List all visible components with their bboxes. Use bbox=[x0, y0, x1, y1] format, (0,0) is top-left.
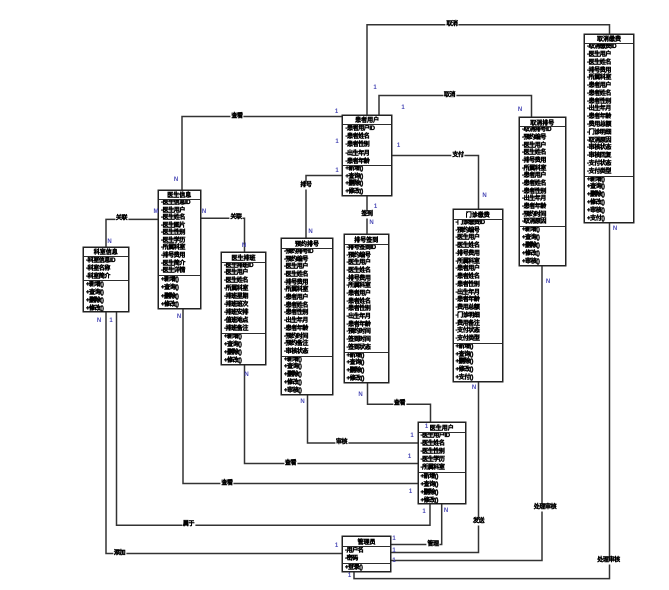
cardinality 1 患者用户-签到 bbox=[374, 204, 377, 210]
entity 取消缴费 bbox=[584, 34, 634, 223]
wire 处理审核: 取消缴费 bottom to 管理员 bottom bbox=[354, 223, 610, 579]
wire 审核: 预约排号 bottom to 医生用户 left bbox=[308, 395, 418, 443]
cardinality N 排号签到 bottom bbox=[358, 392, 362, 398]
cardinality N 医生信息 bottom bbox=[177, 314, 181, 320]
wire 查看: 医生信息 top to 患者用户 left bbox=[182, 117, 342, 190]
label 发送 on wire 门诊缴费-管理员 bbox=[472, 518, 485, 525]
cardinality N 门诊缴费 bottom bbox=[472, 385, 476, 391]
cardinality 1 患者用户-取消排号 bbox=[401, 105, 404, 111]
cardinality N 预约排号 bottom bbox=[300, 399, 304, 405]
label 取消 on wire 患者用户-取消排号 bbox=[443, 92, 456, 99]
cardinality 1 医生用户 bottom left bbox=[422, 509, 425, 515]
cardinality 1 患者用户 left upper bbox=[335, 109, 338, 115]
wire 管理: 管理员 right to 医生用户 bottom bbox=[391, 504, 442, 544]
label 查看 on wire 医生排班-医生用户 bbox=[284, 460, 297, 467]
label 审核 on wire 预约排号-医生用户 bbox=[335, 440, 348, 447]
label 处理审核 on wire 取消缴费-管理员 bbox=[596, 557, 620, 564]
label 取消 on wire 患者用户-取消缴费 bbox=[445, 21, 458, 28]
cardinality 1 管理员 bottom bbox=[348, 573, 351, 579]
wire 取消: 患者用户 top to 取消排号 top bbox=[379, 96, 532, 117]
wire 关联: 医生信息 right to 医生排班 top bbox=[201, 218, 245, 252]
entity 医生用户 bbox=[418, 422, 467, 504]
entity 科室信息 bbox=[83, 247, 129, 313]
entity 患者用户 bbox=[342, 115, 392, 197]
cardinality N 医生信息 right bbox=[202, 209, 206, 215]
label 处理审核 on wire 取消排号-管理员 bbox=[533, 505, 557, 512]
cardinality N 取消排号 bottom bbox=[546, 279, 550, 285]
cardinality 1 管理员-处理审核 bbox=[392, 558, 395, 564]
cardinality M 医生信息 left bbox=[154, 209, 159, 215]
cardinality 1 医生用户 top bbox=[425, 424, 428, 430]
label 添加 on wire 管理员-科室信息 bbox=[113, 550, 126, 557]
wire 签到: 患者用户 bottom to 排号签到 top bbox=[366, 196, 368, 234]
entity 管理员 bbox=[342, 536, 391, 572]
label 关联 on wire 医生信息-医生排班 bbox=[229, 215, 242, 222]
cardinality 1 患者用户-支付 bbox=[397, 143, 400, 149]
wire 查看: 医生信息 bottom to 医生用户 left bbox=[183, 309, 418, 484]
wire 支付: 患者用户 right to 门诊缴费 top bbox=[392, 156, 479, 210]
cardinality N 预约排号 top bbox=[308, 229, 312, 235]
wire 排号: 患者用户 left to 预约排号 top bbox=[306, 176, 342, 239]
label 查看 on wire 医生信息-患者用户 bbox=[230, 113, 243, 120]
wire 属于: 医生用户 bottom to 科室信息 bottom bbox=[117, 312, 431, 525]
wire 关联: 医生信息 left to 科室信息 top bbox=[106, 219, 158, 246]
wire 查看: 排号签到 bottom to 医生用户 top bbox=[368, 383, 431, 422]
cardinality N 医生排班 bottom bbox=[244, 372, 248, 378]
cardinality 1 医生用户 left lower bbox=[409, 489, 412, 495]
cardinality 1 管理员-管理 bbox=[392, 536, 395, 542]
cardinality N 医生排班 top bbox=[242, 243, 246, 249]
label 支付 on wire 患者用户-门诊缴费 bbox=[451, 152, 464, 159]
entity 取消排号 bbox=[519, 117, 566, 266]
cardinality 1 患者用户-取消缴费 bbox=[373, 85, 376, 91]
cardinality N 取消缴费 bottom bbox=[613, 226, 617, 232]
label 关联 on wire 医生信息-科室信息 bbox=[115, 216, 128, 223]
cardinality 1 管理员-添加 bbox=[335, 543, 338, 549]
cardinality N 门诊缴费 top bbox=[482, 193, 486, 199]
wire 取消: 患者用户 top to 取消缴费 top bbox=[367, 25, 610, 115]
label 查看 on wire 医生信息-医生用户 bbox=[220, 480, 233, 487]
label 查看 on wire 排号签到-医生用户 bbox=[393, 401, 406, 408]
label 属于 on wire 医生用户-科室信息 bbox=[182, 522, 195, 529]
label 管理 on wire 管理员-医生用户 bbox=[426, 541, 439, 548]
entity 门诊缴费 bbox=[453, 209, 504, 382]
wire 查看: 医生排班 bottom to 医生用户 left bbox=[245, 365, 418, 464]
cardinality N 科室信息 bottom left bbox=[97, 318, 101, 324]
label 排号 on wire 患者用户-预约排号 bbox=[299, 183, 312, 190]
cardinality N 医生信息 top bbox=[174, 177, 178, 183]
cardinality 1 患者用户 left mid bbox=[335, 139, 338, 145]
entity 医生排班 bbox=[221, 252, 266, 365]
wire 发送: 门诊缴费 bottom to 管理员 right bbox=[391, 382, 479, 553]
cardinality N 取消排号 top bbox=[518, 107, 522, 113]
cardinality N 医生用户 bottom right bbox=[444, 508, 448, 514]
cardinality 1 医生用户 left mid bbox=[408, 454, 411, 460]
wire 处理审核: 取消排号 bottom to 管理员 right bbox=[391, 266, 542, 561]
cardinality 1 科室信息 bottom right bbox=[109, 318, 112, 324]
entity 医生信息 bbox=[158, 190, 201, 309]
cardinality N 科室信息 top bbox=[107, 239, 111, 245]
cardinality 1 医生用户 left upper bbox=[410, 433, 413, 439]
cardinality 1 患者用户-排号 bbox=[335, 168, 338, 174]
label 签到 on wire 患者用户-排号签到 bbox=[360, 212, 373, 219]
cardinality 1 管理员-发送 bbox=[392, 548, 395, 554]
wire 添加: 管理员 left to 科室信息 bottom bbox=[106, 312, 342, 553]
cardinality N 排号签到 top bbox=[369, 220, 373, 226]
entity 预约排号 bbox=[281, 238, 333, 395]
entity 排号签到 bbox=[344, 234, 390, 383]
